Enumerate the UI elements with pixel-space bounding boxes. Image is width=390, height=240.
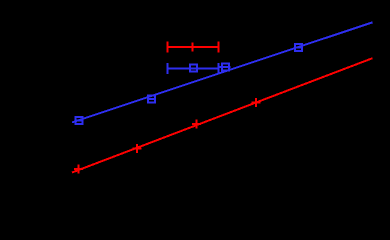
blue data square 1 [75,117,82,124]
legend blue left tick [167,63,169,74]
red data plus 2 [133,144,142,153]
red data plus 1 [74,165,83,174]
blue data square 4 [295,44,302,51]
legend red right tick [218,42,220,53]
legend red sample line [168,46,219,48]
red data plus 3 [192,119,201,128]
legend blue sample line [168,67,219,69]
blue x-error whisker through square 1 [74,120,83,122]
legend blue right tick [218,63,220,74]
blue data square 2 [148,95,155,102]
blue x-error whisker through square 4 [294,47,303,49]
blue fit line [72,22,373,122]
red fit line [72,58,373,172]
blue x-error whisker through square 3 [219,66,231,68]
blue x-error whisker through square 2 [147,98,156,100]
blue data square 3 [222,64,229,71]
red data plus 4 [251,98,260,107]
legend red plus marker [188,43,197,52]
legend red left tick [167,42,169,53]
legend blue square marker [190,65,197,72]
